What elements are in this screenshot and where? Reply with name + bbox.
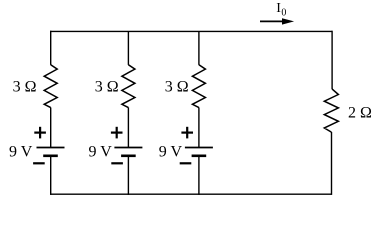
label I0 bbox=[276, 1, 286, 19]
svg-text:3 Ω: 3 Ω bbox=[165, 78, 189, 95]
wire branch3 top lead bbox=[198, 31, 200, 65]
battery V3 bbox=[185, 148, 213, 156]
minus sign V3 bbox=[180, 162, 192, 164]
svg-text:9 V: 9 V bbox=[9, 144, 33, 161]
wire V2 to bottom rail bbox=[127, 156, 129, 195]
wire branch2 top lead bbox=[127, 31, 129, 65]
minus sign V1 bbox=[33, 162, 45, 164]
wire branch1 top lead bbox=[50, 31, 52, 65]
wire R1 to battery V1 bbox=[50, 108, 52, 148]
svg-text:2 Ω: 2 Ω bbox=[348, 104, 372, 121]
battery V1 bbox=[37, 148, 65, 156]
battery V2 bbox=[114, 148, 142, 156]
plus sign V3 bbox=[181, 127, 193, 139]
plus sign V2 bbox=[111, 127, 123, 139]
wire R4 to bottom rail bbox=[331, 132, 333, 195]
resistor R2 bbox=[122, 65, 135, 108]
wire V1 to bottom rail bbox=[50, 156, 52, 195]
wire R2 to battery V2 bbox=[127, 108, 129, 148]
resistor R1 bbox=[44, 65, 57, 108]
resistor R4 bbox=[324, 89, 338, 132]
svg-text:3 Ω: 3 Ω bbox=[13, 78, 37, 95]
svg-text:0: 0 bbox=[281, 8, 286, 19]
wire top rail bbox=[50, 30, 332, 32]
wire R3 to battery V3 bbox=[198, 108, 200, 148]
plus sign V1 bbox=[34, 127, 46, 139]
svg-text:9 V: 9 V bbox=[159, 144, 183, 161]
minus sign V2 bbox=[111, 162, 123, 164]
wire bottom rail bbox=[50, 193, 331, 195]
wire V3 to bottom rail bbox=[198, 156, 200, 195]
resistor R3 bbox=[192, 65, 205, 108]
svg-text:9 V: 9 V bbox=[89, 144, 113, 161]
current arrow I0 bbox=[260, 18, 294, 24]
wire right side top lead bbox=[331, 31, 333, 89]
svg-text:3 Ω: 3 Ω bbox=[95, 78, 119, 95]
